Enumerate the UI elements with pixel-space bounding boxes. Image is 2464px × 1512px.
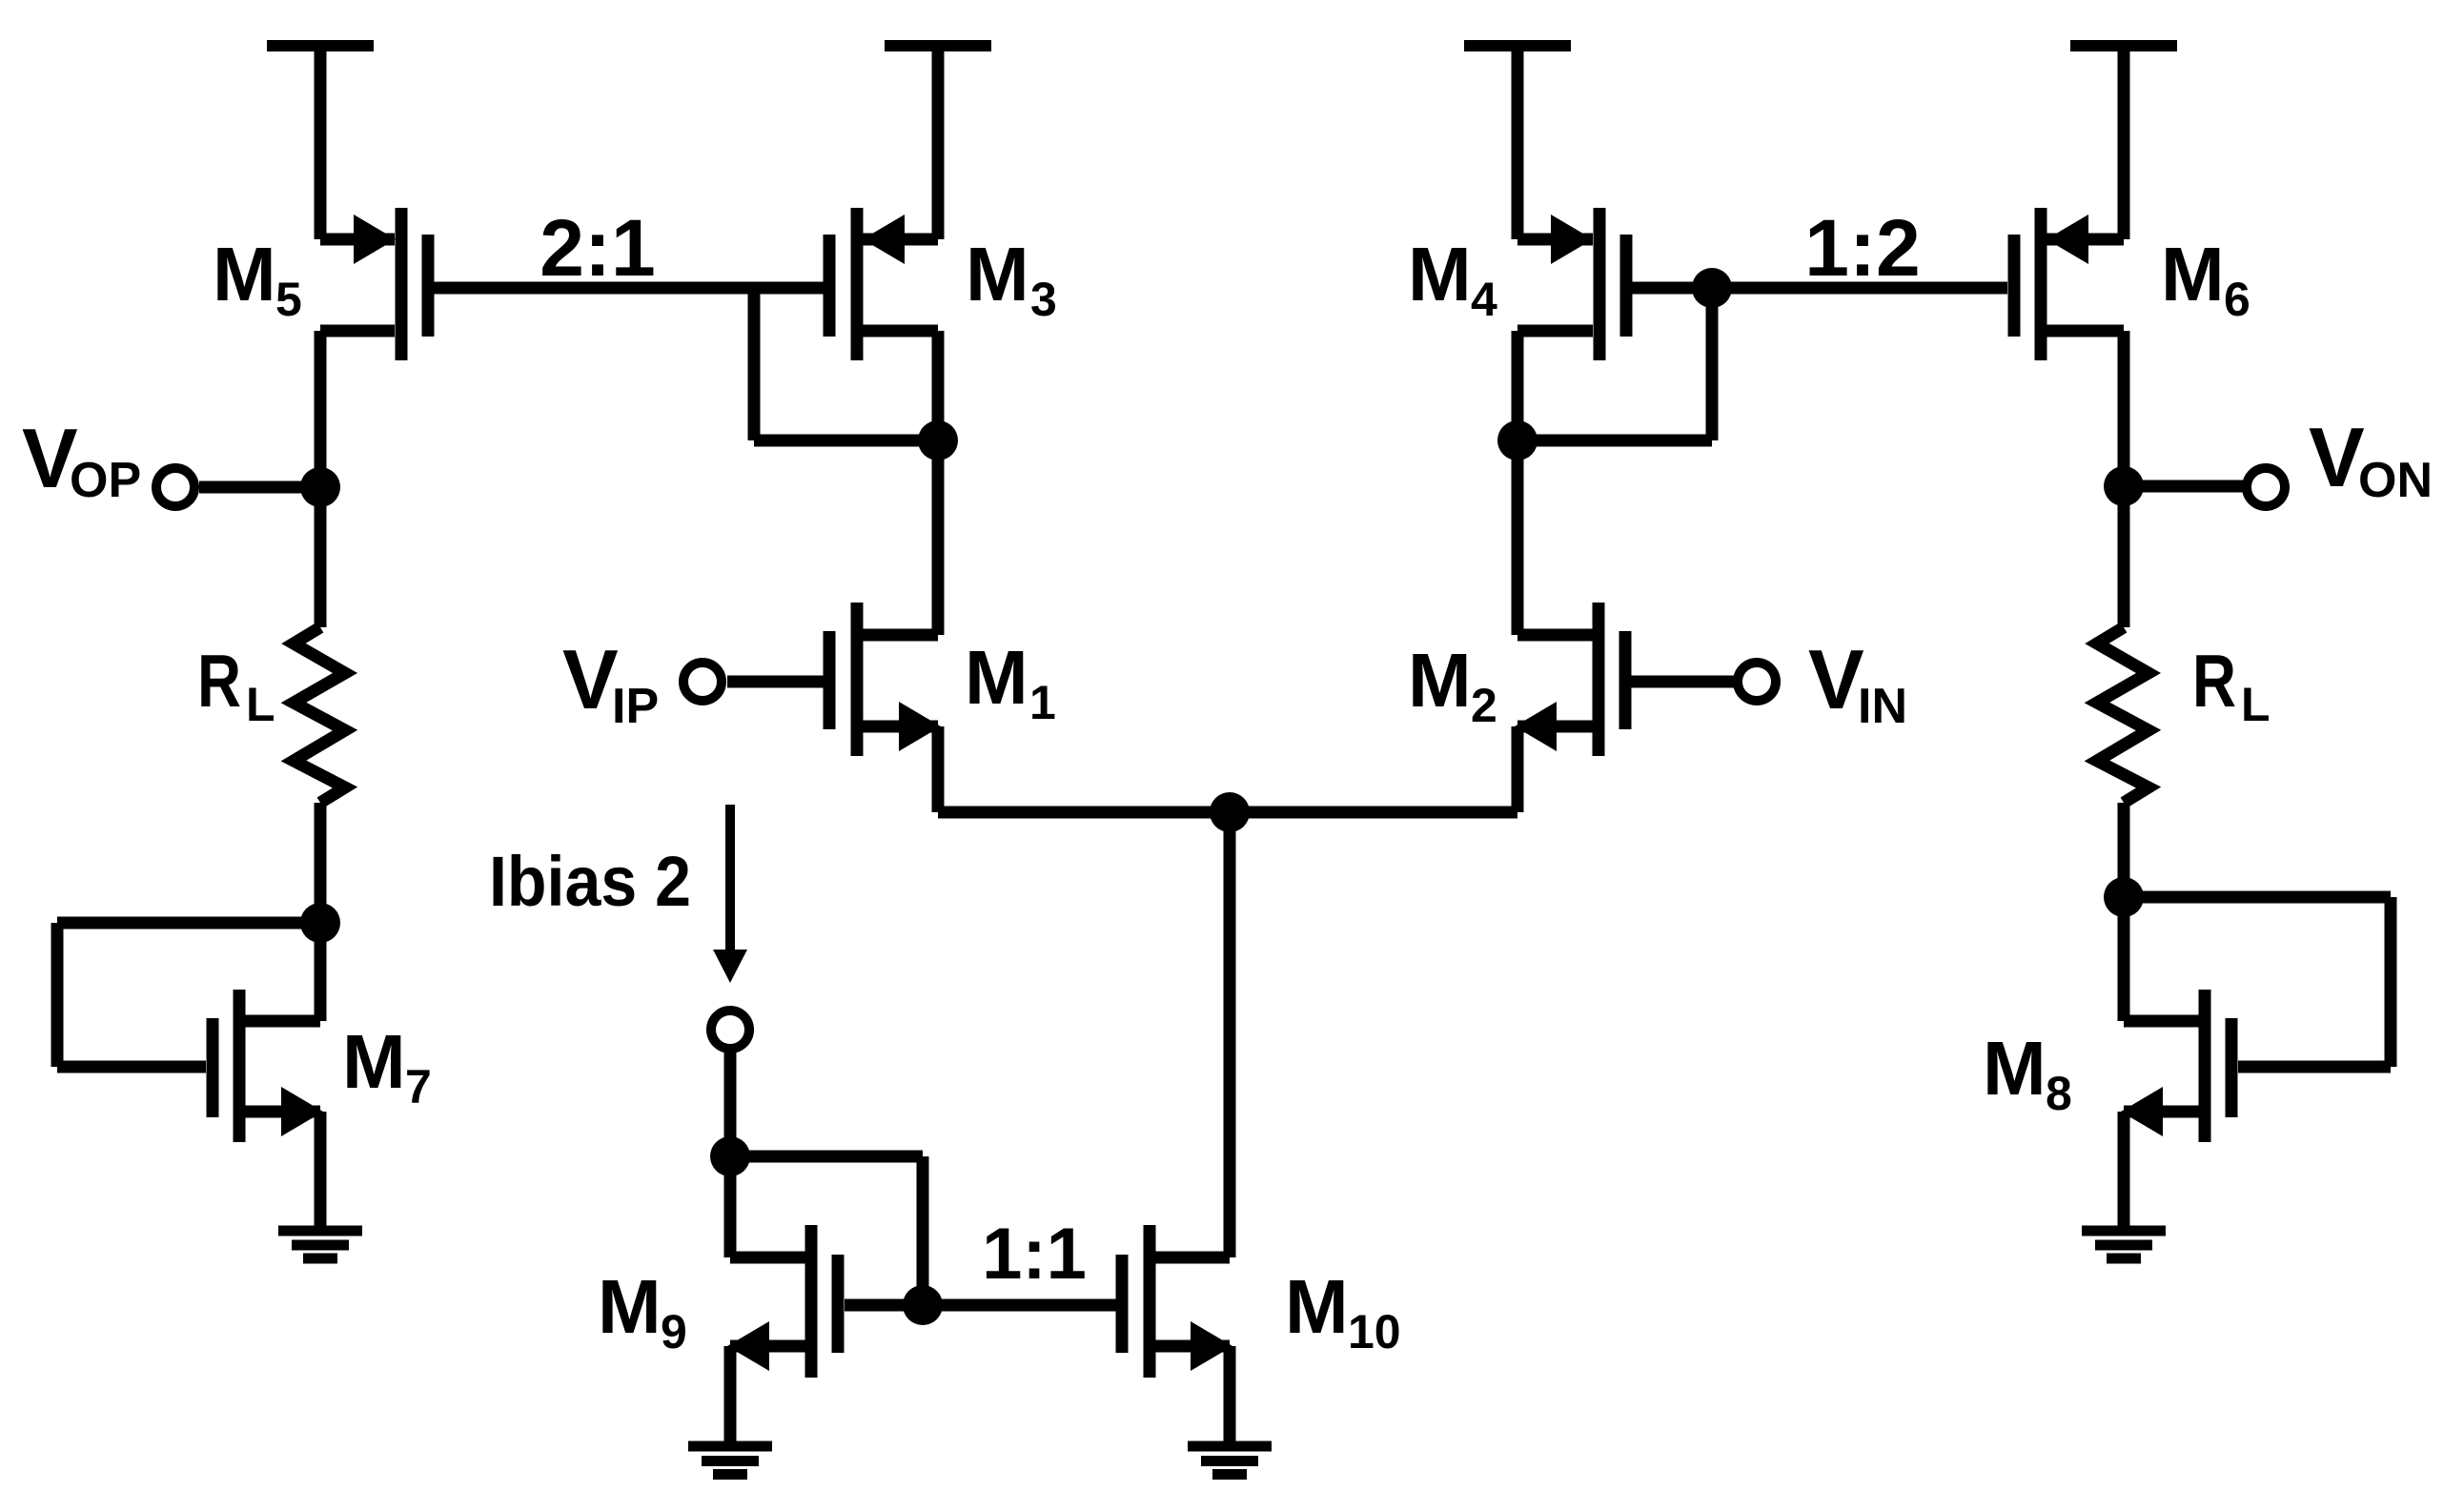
VDD bar T1 (above M5) [267,46,374,239]
terminal VON [2247,468,2285,506]
wire: tail down to M10 drain [1224,812,1236,1257]
svg-text:M: M [1408,638,1472,723]
node: M3 drain junction [918,420,958,460]
node: VON junction [2104,466,2144,506]
svg-text:V: V [562,632,619,726]
wire: Ibias node down to M9 drain leg [724,1156,737,1257]
label VON [2309,410,2433,508]
wire: M9-M10 gate rail [845,1299,1116,1312]
svg-text:3: 3 [1030,273,1057,326]
transistor M6 (PMOS) [2014,208,2124,360]
svg-text:1:1: 1:1 [982,1214,1087,1295]
label 1:2 [1804,203,1920,293]
wire: VON stub [2124,480,2247,493]
label VOP [22,411,141,508]
node: right RL bottom junction [2104,877,2144,917]
transistor M1 (NMOS) [727,603,941,756]
wire: VOP stub [199,481,320,494]
node: M4 gate junction [1692,268,1732,308]
label M9 [598,1264,687,1359]
terminal Ibias 2 [711,1011,749,1049]
transistor M4 (PMOS, diode-connected) [1517,208,1626,360]
label M1 [965,635,1056,729]
svg-text:8: 8 [2046,1067,2072,1120]
label Ibias 2 [489,842,691,921]
VDD bar T2 (above M3) [885,46,991,239]
wire: tail rail [938,807,1517,819]
label VIP [562,632,659,734]
wire: M5 gate line to M3 [434,282,824,295]
svg-text:R: R [197,639,241,723]
svg-text:R: R [2192,639,2236,723]
svg-text:M: M [342,1019,406,1104]
svg-text:L: L [2241,678,2271,731]
terminal VIN [1738,663,1776,701]
svg-text:IP: IP [612,679,659,734]
terminal VIP [683,663,722,701]
transistor M8 (NMOS, diode-connected, mirrored) [2121,897,2391,1231]
wire: M5 drain down to VOP node [315,331,327,487]
label M3 [966,232,1057,326]
ground (M7) [278,1231,362,1258]
svg-text:M: M [213,232,276,317]
wire: M4 drain column down to M2 drain [1512,331,1524,635]
VDD bar T3 (above M4) [1464,46,1571,239]
svg-text:V: V [2309,410,2365,504]
node: VOP junction [300,467,340,507]
wire: M10 source to ground [1224,1346,1236,1446]
wire: M4 gate line to M6 [1632,282,2007,295]
label 2:1 [540,203,655,293]
VDD bar T4 (above M6) [2070,46,2177,239]
svg-text:2:1: 2:1 [540,203,655,293]
svg-text:M: M [965,635,1028,720]
svg-text:5: 5 [275,273,302,326]
resistor RL (right) [2097,486,2148,897]
svg-text:M: M [1983,1026,2047,1111]
wire: Ibias terminal to M9 drain [724,1052,737,1156]
label 1:1 [982,1214,1087,1295]
transistor M10 (NMOS) [1122,1225,1232,1378]
wire: M9 source to ground [724,1346,737,1446]
svg-text:2: 2 [1471,679,1497,732]
label M7 [342,1019,432,1114]
svg-text:1:2: 1:2 [1804,203,1920,293]
svg-text:IN: IN [1858,679,1907,734]
label M5 [213,232,302,326]
resistor RL (left) [294,487,345,923]
svg-text:M: M [1285,1264,1349,1349]
svg-text:1: 1 [1029,676,1056,729]
svg-text:6: 6 [2224,273,2250,326]
svg-text:M: M [1408,232,1472,317]
label M10 [1285,1264,1401,1359]
svg-text:L: L [246,678,275,731]
node: Ibias junction [710,1136,750,1176]
svg-text:ON: ON [2358,453,2433,508]
node: left RL bottom junction [300,903,340,943]
transistor M2 (NMOS, mirrored) [1515,603,1738,756]
label RL (left) [197,639,275,731]
svg-text:7: 7 [405,1060,432,1114]
ground (M8) [2082,1231,2166,1258]
wire: M3 gate drop (diode connection) [754,288,938,440]
transistor M3 (PMOS, diode-connected) [829,208,938,360]
wire: M1 source to tail [932,726,945,812]
svg-text:OP: OP [70,453,141,508]
terminal VOP [156,468,194,506]
node: M4 drain junction [1497,420,1537,460]
node: gate rail junction [903,1285,943,1325]
svg-text:9: 9 [661,1305,687,1359]
wire: M3 drain column down to M1 drain [932,331,945,635]
svg-text:10: 10 [1348,1305,1401,1359]
label M4 [1408,232,1497,326]
wire: M4 diode connection drop [1517,288,1712,440]
svg-text:M: M [966,232,1029,317]
ground (M10) [1188,1446,1272,1475]
wire: M6 drain down to VON node [2118,331,2130,486]
svg-text:V: V [1808,632,1864,726]
label RL (right) [2192,639,2271,731]
node: tail junction [1210,792,1250,832]
label VIN [1808,632,1907,734]
label M6 [2161,232,2250,326]
svg-text:4: 4 [1471,273,1497,326]
label M2 [1408,638,1497,732]
ground (M9) [688,1446,772,1475]
svg-text:Ibias 2: Ibias 2 [489,842,691,921]
transistor M7 (NMOS, diode-connected) [57,923,323,1231]
wire: M9 diode connection to gate rail [730,1156,923,1305]
svg-text:M: M [598,1264,662,1349]
Ibias 2 current arrow [713,805,747,983]
svg-text:M: M [2161,232,2225,317]
transistor M5 (PMOS) [320,208,428,360]
wire: M2 source to tail [1512,726,1524,812]
label M8 [1983,1026,2072,1120]
transistor M9 (NMOS, mirrored) [727,1225,838,1378]
